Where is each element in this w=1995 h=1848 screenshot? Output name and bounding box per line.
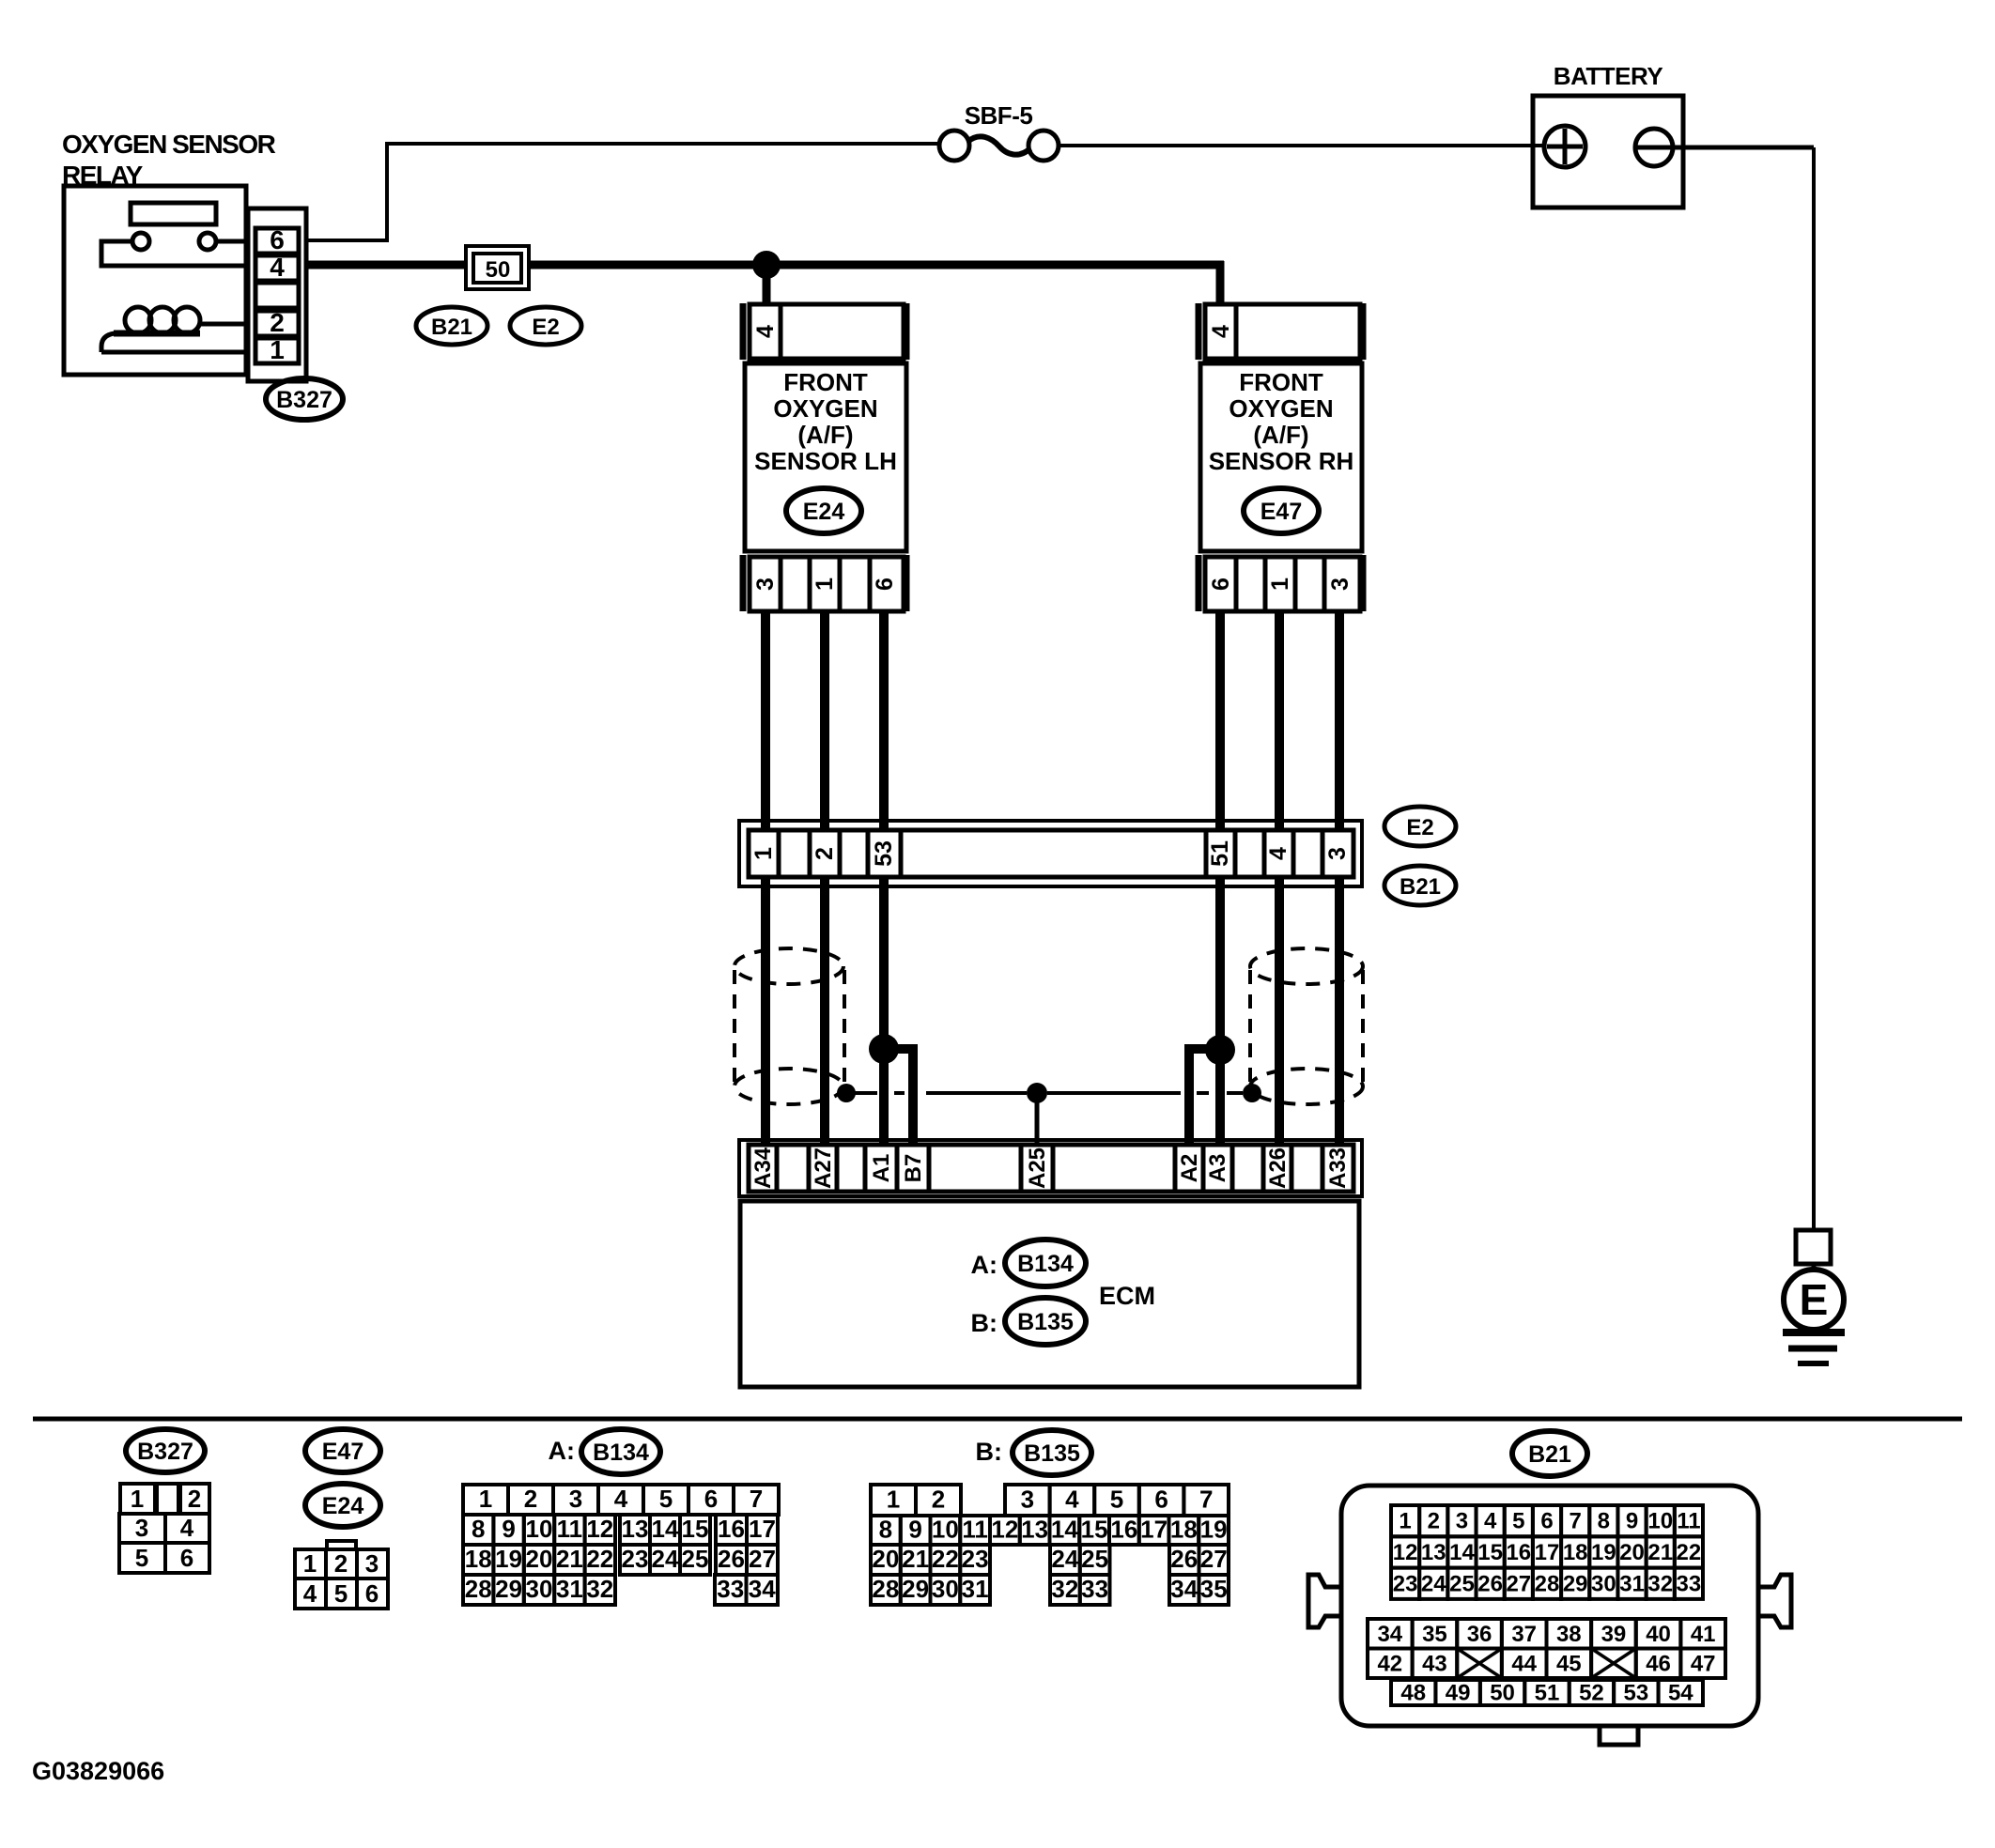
junction node on pin51 wire [1205,1035,1235,1065]
svg-text:23: 23 [1393,1571,1418,1596]
svg-text:A26: A26 [1265,1147,1291,1189]
svg-text:34: 34 [749,1575,776,1603]
wire RH pin6 to connector pin51 [1215,611,1225,830]
legend: connector B21 oval [1512,1431,1587,1476]
svg-text:B21: B21 [1400,874,1441,900]
svg-text:33: 33 [1081,1575,1108,1603]
svg-text:3: 3 [1324,847,1351,860]
legend: connector B327 oval [126,1429,205,1472]
legend: connector B134 pin grid [463,1485,779,1605]
svg-text:45: 45 [1556,1651,1582,1676]
svg-text:10: 10 [932,1516,959,1544]
svg-text:12: 12 [586,1515,613,1543]
shield drain wire [846,1091,1243,1095]
svg-text:20: 20 [1619,1540,1645,1565]
svg-text:15: 15 [1081,1516,1108,1544]
svg-text:16: 16 [1110,1516,1137,1544]
svg-text:3: 3 [1021,1486,1034,1514]
svg-text:BATTERY: BATTERY [1554,62,1663,90]
legend: connector E24 oval [305,1484,380,1527]
svg-text:28: 28 [872,1575,899,1603]
svg-text:7: 7 [1199,1486,1213,1514]
svg-text:13: 13 [622,1515,649,1543]
shield drain node right [1243,1084,1261,1102]
svg-text:50: 50 [1490,1681,1515,1706]
svg-text:30: 30 [932,1575,959,1603]
svg-text:14: 14 [652,1515,679,1543]
relay connector B327 block [248,208,306,381]
svg-text:A1: A1 [869,1154,894,1183]
svg-text:B:: B: [971,1309,998,1337]
svg-text:27: 27 [749,1545,776,1573]
svg-text:E: E [1800,1275,1829,1324]
svg-text:35: 35 [1422,1622,1447,1647]
svg-text:OXYGEN: OXYGEN [1229,394,1333,423]
legend: B21 right tab [1758,1575,1791,1627]
wire drain to ECM A25 [1035,1093,1040,1145]
svg-text:3: 3 [752,577,779,591]
svg-text:51: 51 [1535,1681,1560,1706]
svg-text:34: 34 [1170,1575,1198,1603]
svg-text:8: 8 [472,1515,485,1543]
svg-text:B134: B134 [1017,1251,1074,1277]
svg-text:6: 6 [872,577,898,591]
svg-text:14: 14 [1051,1516,1078,1544]
svg-text:21: 21 [902,1545,929,1573]
wire coil to pin 2 [199,322,248,327]
svg-text:5: 5 [135,1544,148,1572]
svg-text:8: 8 [1598,1509,1610,1534]
blank cell [255,283,299,308]
svg-text:33: 33 [717,1575,744,1603]
svg-text:2: 2 [524,1485,537,1513]
ECM connector row [739,1140,1362,1196]
svg-text:OXYGEN SENSOR: OXYGEN SENSOR [62,130,276,159]
svg-text:6: 6 [1540,1509,1553,1534]
svg-text:2: 2 [270,308,285,337]
relay contact left [132,233,149,250]
svg-text:(A/F): (A/F) [1253,421,1308,449]
svg-text:E24: E24 [322,1493,364,1519]
wire RH pin1 to connector pin4 [1275,611,1284,830]
svg-text:24: 24 [1051,1545,1078,1573]
svg-text:27: 27 [1506,1571,1531,1596]
svg-text:30: 30 [1591,1571,1616,1596]
separator line [33,1417,1962,1422]
legend: connector B21 shell [1341,1486,1758,1726]
wire connector pin53 to ECM A1 [879,877,889,1145]
svg-text:5: 5 [334,1579,348,1608]
svg-text:37: 37 [1511,1622,1537,1647]
battery plus terminal [1544,126,1585,167]
relay contact right [199,233,216,250]
svg-text:ECM: ECM [1099,1282,1155,1310]
svg-text:OXYGEN: OXYGEN [773,394,877,423]
svg-text:52: 52 [1579,1681,1604,1706]
svg-text:9: 9 [1626,1509,1638,1534]
svg-text:19: 19 [1591,1540,1616,1565]
svg-text:18: 18 [1563,1540,1588,1565]
svg-text:4: 4 [1484,1509,1497,1534]
oxygen sensor relay label [62,130,276,190]
legend: connector B134 oval [581,1429,660,1474]
pin 1 cell [255,338,299,363]
svg-text:11: 11 [557,1515,583,1543]
svg-text:15: 15 [682,1515,709,1543]
svg-text:E47: E47 [1260,499,1302,525]
svg-text:4: 4 [1265,847,1291,860]
svg-text:4: 4 [752,325,779,338]
svg-text:FRONT: FRONT [1239,368,1323,396]
shield drain node center [1027,1083,1047,1103]
wire connector pin2 to ECM A27 [820,877,829,1145]
svg-text:32: 32 [1051,1575,1078,1603]
svg-text:E2: E2 [1406,815,1433,840]
svg-text:31: 31 [1619,1571,1645,1596]
svg-text:6: 6 [180,1544,193,1572]
svg-text:47: 47 [1691,1651,1716,1676]
svg-text:A3: A3 [1205,1154,1230,1183]
svg-text:B7: B7 [901,1154,926,1183]
connector designator B134 oval [1005,1240,1086,1286]
svg-text:31: 31 [962,1575,989,1603]
svg-text:G03829066: G03829066 [32,1757,164,1785]
svg-text:24: 24 [1421,1571,1446,1596]
svg-text:4: 4 [1065,1486,1079,1514]
wire battery minus down to ground [1812,147,1816,1232]
svg-text:5: 5 [1512,1509,1524,1534]
wire SBF-5 to battery [1059,144,1544,147]
pin 4 cell [255,255,299,281]
svg-text:4: 4 [180,1514,194,1542]
svg-text:A33: A33 [1325,1147,1351,1189]
svg-text:9: 9 [502,1515,515,1543]
svg-text:17: 17 [1140,1516,1168,1544]
svg-text:11: 11 [1677,1509,1700,1534]
svg-text:B135: B135 [1024,1440,1080,1467]
battery box [1533,96,1683,208]
connector E2 oval (fuse) [510,307,581,345]
svg-text:12: 12 [1393,1540,1418,1565]
svg-text:20: 20 [872,1545,899,1573]
svg-text:19: 19 [495,1545,522,1573]
svg-text:14: 14 [1449,1540,1475,1565]
svg-text:9: 9 [908,1516,921,1544]
svg-text:25: 25 [1081,1545,1108,1573]
svg-text:1: 1 [131,1485,144,1513]
svg-text:27: 27 [1200,1545,1228,1573]
wire connector pin1 to ECM A34 [761,877,770,1145]
svg-text:25: 25 [1449,1571,1475,1596]
svg-text:B21: B21 [431,315,472,340]
svg-text:3: 3 [1456,1509,1468,1534]
svg-text:39: 39 [1601,1622,1627,1647]
svg-text:1: 1 [812,577,838,591]
svg-text:A25: A25 [1025,1147,1050,1189]
svg-text:23: 23 [962,1545,989,1573]
svg-text:29: 29 [495,1575,522,1603]
svg-text:28: 28 [465,1575,492,1603]
wire LH pin6 to connector pin53 [879,611,889,830]
svg-text:17: 17 [749,1515,776,1543]
fuse SBF-5 [939,101,1059,161]
svg-text:13: 13 [1021,1516,1048,1544]
svg-text:18: 18 [1170,1516,1198,1544]
svg-text:E47: E47 [322,1439,363,1465]
FRONT OXYGEN (A/F) SENSOR RH top connector [1199,303,1364,360]
svg-text:FRONT: FRONT [783,368,868,396]
svg-text:48: 48 [1400,1681,1426,1706]
svg-text:E2: E2 [532,315,559,340]
wire pin6 to SBF-5 [306,144,939,240]
shield drain node left [837,1084,856,1102]
svg-text:1: 1 [270,335,285,364]
svg-text:(A/F): (A/F) [797,421,853,449]
svg-text:6: 6 [270,225,285,254]
FRONT OXYGEN (A/F) SENSOR LH bottom connector [743,555,907,611]
svg-text:11: 11 [962,1516,988,1544]
relay K1 box [64,186,246,375]
svg-text:5: 5 [1110,1486,1123,1514]
svg-text:22: 22 [586,1545,613,1573]
svg-text:26: 26 [1477,1571,1503,1596]
svg-text:21: 21 [556,1545,583,1573]
junction node on power wire [752,251,781,279]
FRONT OXYGEN (A/F) SENSOR LH top connector [743,303,907,360]
wire relay contact right to pin 6 [216,239,248,244]
svg-text:43: 43 [1422,1651,1447,1676]
connector E2 oval (row) [1384,807,1456,846]
svg-text:1: 1 [1267,577,1293,591]
FRONT OXYGEN (A/F) SENSOR RH body E47 [1200,363,1362,551]
svg-text:29: 29 [1563,1571,1588,1596]
svg-text:13: 13 [1421,1540,1446,1565]
svg-text:28: 28 [1535,1571,1560,1596]
shield left (dashed) [735,948,844,1104]
svg-text:35: 35 [1200,1575,1228,1603]
svg-text:A27: A27 [811,1147,836,1189]
svg-text:2: 2 [334,1549,348,1578]
svg-text:25: 25 [682,1545,709,1573]
relay coil [101,307,200,352]
svg-text:1: 1 [303,1549,317,1578]
svg-text:SBF-5: SBF-5 [965,101,1033,130]
svg-text:22: 22 [932,1545,959,1573]
svg-text:2: 2 [188,1485,201,1513]
svg-text:B327: B327 [276,387,332,413]
shield right (dashed) [1250,948,1363,1104]
legend: connector E47 oval [305,1429,380,1472]
fuse 50 box [466,246,529,289]
svg-text:34: 34 [1377,1622,1402,1647]
svg-text:SENSOR LH: SENSOR LH [754,447,897,475]
svg-text:46: 46 [1646,1651,1671,1676]
svg-text:B327: B327 [137,1439,193,1465]
svg-text:51: 51 [1207,840,1233,867]
wire branch junction to ECM B7 [884,1049,913,1145]
svg-text:26: 26 [1170,1545,1198,1573]
svg-text:2: 2 [812,847,838,860]
svg-text:42: 42 [1377,1651,1402,1676]
wire connector pin3 to ECM A33 [1335,877,1344,1145]
svg-text:21: 21 [1647,1540,1673,1565]
svg-text:6: 6 [1208,577,1234,591]
ground stack [1783,1332,1845,1363]
svg-text:49: 49 [1446,1681,1471,1706]
svg-text:7: 7 [1570,1509,1582,1534]
svg-text:3: 3 [569,1485,582,1513]
svg-text:6: 6 [704,1485,718,1513]
svg-text:SENSOR RH: SENSOR RH [1209,447,1354,475]
svg-text:1: 1 [887,1486,900,1514]
intermediate connector E2/B21 row [739,821,1362,886]
svg-text:2: 2 [1428,1509,1440,1534]
svg-text:17: 17 [1535,1540,1560,1565]
wire coil to pin 1 [101,350,248,355]
svg-text:4: 4 [614,1485,628,1513]
svg-text:5: 5 [659,1485,673,1513]
pin 6 cell [255,228,299,254]
svg-text:12: 12 [991,1516,1018,1544]
svg-text:50: 50 [486,257,511,283]
legend: B21 left tab [1308,1575,1341,1627]
wire junction down to LH sensor pin 4 [763,265,771,304]
svg-text:4: 4 [270,253,285,282]
svg-text:19: 19 [1200,1516,1228,1544]
svg-text:26: 26 [718,1545,745,1573]
ground E node [1784,1264,1844,1330]
wire LH pin3 to connector pin1 [761,611,770,830]
connector B21 oval (fuse) [416,307,487,345]
svg-text:B21: B21 [1528,1441,1571,1468]
wire relay contact left to pin 4 [101,241,248,266]
svg-text:23: 23 [622,1545,649,1573]
svg-text:1: 1 [750,847,777,860]
connector designator B327 oval [266,378,343,420]
svg-text:4: 4 [1208,325,1234,338]
legend: connector E24/E47 pin grid [295,1541,388,1609]
pin 2 cell [255,311,299,336]
FRONT OXYGEN (A/F) SENSOR LH body E24 [745,363,906,551]
connector designator B135 oval [1005,1298,1086,1345]
svg-text:16: 16 [718,1515,745,1543]
svg-text:44: 44 [1511,1651,1537,1676]
svg-text:20: 20 [526,1545,553,1573]
svg-text:A2: A2 [1177,1154,1202,1183]
legend: connector B135 pin grid [871,1485,1229,1605]
svg-text:A:: A: [549,1437,576,1465]
wire RH pin3 to connector pin3 [1335,611,1344,830]
svg-text:38: 38 [1556,1622,1582,1647]
svg-text:B:: B: [976,1438,1003,1466]
svg-text:32: 32 [586,1575,613,1603]
wire LH pin1 to connector pin2 [820,611,829,830]
junction node on pin53 wire [869,1034,899,1064]
svg-text:A:: A: [971,1251,998,1279]
main power wire from relay pin 4 [306,261,1224,269]
svg-text:41: 41 [1691,1622,1716,1647]
svg-text:1: 1 [479,1485,492,1513]
legend: B21 bottom tab [1600,1726,1638,1745]
svg-text:15: 15 [1477,1540,1503,1565]
svg-text:32: 32 [1647,1571,1673,1596]
svg-text:7: 7 [750,1485,763,1513]
svg-text:3: 3 [135,1514,148,1542]
svg-text:B135: B135 [1017,1309,1074,1335]
ground connector square [1796,1230,1831,1264]
svg-text:33: 33 [1677,1571,1702,1596]
svg-text:24: 24 [652,1545,679,1573]
svg-text:E24: E24 [803,499,845,525]
wire connector pin51 to ECM A3 [1215,877,1225,1145]
svg-text:B134: B134 [593,1440,649,1466]
wire branch junction to ECM A2 [1189,1049,1220,1145]
svg-text:53: 53 [1624,1681,1649,1706]
legend: connector B135 oval [1013,1430,1091,1475]
wire from power junction down to RH sensor pin 4 [1216,261,1225,304]
svg-text:8: 8 [879,1516,892,1544]
relay contact bar [131,203,216,224]
svg-text:2: 2 [932,1486,945,1514]
svg-text:40: 40 [1646,1622,1671,1647]
battery minus terminal [1635,129,1814,166]
wire connector pin4 to ECM A26 [1275,877,1284,1145]
svg-text:30: 30 [526,1575,553,1603]
ECM box [740,1201,1359,1387]
svg-text:36: 36 [1467,1622,1492,1647]
FRONT OXYGEN (A/F) SENSOR RH bottom connector [1199,555,1364,611]
svg-text:6: 6 [1154,1486,1168,1514]
svg-text:3: 3 [1327,577,1353,591]
svg-text:29: 29 [902,1575,929,1603]
svg-text:22: 22 [1677,1540,1702,1565]
svg-text:53: 53 [871,840,897,867]
svg-text:4: 4 [303,1579,317,1608]
svg-text:10: 10 [1647,1509,1673,1534]
legend: connector B327 pin grid [119,1484,209,1573]
legend: connector B21 pin grids [1368,1505,1725,1706]
svg-text:16: 16 [1506,1540,1531,1565]
svg-text:18: 18 [465,1545,492,1573]
svg-text:1: 1 [1399,1509,1411,1534]
svg-text:54: 54 [1668,1681,1693,1706]
svg-text:3: 3 [365,1549,379,1578]
svg-text:31: 31 [556,1575,583,1603]
svg-text:6: 6 [365,1579,379,1608]
svg-text:A34: A34 [750,1147,776,1189]
connector B21 oval (row) [1384,866,1456,905]
svg-text:10: 10 [526,1515,553,1543]
